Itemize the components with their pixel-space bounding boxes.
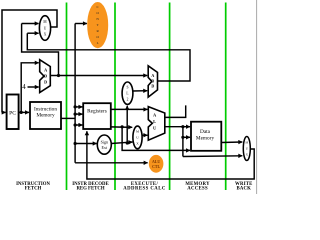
wire: riser to Registers write reg: [75, 124, 82, 126]
svg-text:Data: Data: [200, 129, 211, 135]
mux M2 (ALU src): [133, 126, 142, 149]
wire: PC+4 into mux M1 upper input: [22, 24, 59, 76]
junction node: riser write reg: [74, 123, 77, 126]
svg-text:FETCH: FETCH: [25, 187, 42, 192]
svg-text:PC: PC: [9, 111, 16, 117]
ALU: [148, 107, 165, 141]
ALU CTL oval: [149, 155, 163, 172]
data memory: [191, 122, 221, 151]
svg-text:Memory: Memory: [36, 112, 55, 118]
wire: ADD1 output (PC+4) to ADD2 upper input: [50, 75, 147, 77]
junction node: PC+4 branch: [57, 74, 60, 77]
adder ADD2 (branch target): [148, 66, 157, 97]
svg-text:Memory: Memory: [196, 136, 215, 142]
wire: sign extend up to shift left 2: [126, 106, 128, 143]
wire: ALU result to data memory address: [165, 126, 190, 128]
junction node: riser read reg 2: [74, 113, 77, 116]
svg-text:D: D: [44, 80, 47, 85]
stage divider green line 1: [66, 3, 68, 191]
shift left 2 oval: [122, 82, 133, 104]
svg-text:4: 4: [22, 83, 26, 91]
svg-text:Registers: Registers: [87, 108, 107, 114]
stage divider green line 3: [169, 3, 171, 191]
stage divider green line 4: [225, 3, 227, 191]
wire: read data 2 down to data memory write data: [122, 127, 190, 150]
wire: riser to Registers read reg 1: [75, 106, 82, 108]
junction node: sign ext / shift feed: [126, 141, 129, 144]
sign extend oval: [97, 135, 111, 154]
svg-text:U: U: [44, 26, 47, 30]
wire: ALU zero stub: [165, 105, 186, 117]
svg-text:L: L: [126, 92, 128, 96]
junction node: read data 2 branch: [121, 125, 124, 128]
svg-text:BACK: BACK: [236, 187, 251, 192]
svg-text:2: 2: [127, 98, 129, 102]
wire: shift left 2 output to ADD2 lower input: [133, 90, 147, 92]
wire: mux M2 output to ALU lower input: [142, 134, 147, 136]
wire: ALU result bypass to mux M3 lower input: [183, 155, 242, 158]
wire: write back return to Registers: [87, 131, 254, 179]
svg-text:REG FETCH: REG FETCH: [76, 187, 104, 192]
wire: arrow into PC: [2, 111, 6, 113]
wire: PC output to instruction memory: [19, 111, 29, 113]
junction node: riser read reg 1: [74, 105, 77, 108]
junction node: ALU result branch: [181, 125, 184, 128]
svg-text:L: L: [97, 41, 99, 45]
stage divider green line 2: [114, 3, 116, 191]
wire: branch into data memory second input: [183, 136, 190, 138]
svg-text:CTL: CTL: [152, 165, 160, 169]
junction node: ALU result to DM input 2: [181, 136, 184, 139]
wire: PC to ADD1 upper input: [21, 63, 39, 113]
stage labels: [16, 182, 252, 192]
svg-text:A: A: [44, 68, 47, 73]
svg-text:L: L: [153, 119, 156, 124]
svg-text:D: D: [44, 74, 47, 79]
junction node: riser sign extend: [74, 142, 77, 145]
wire: mux M1 output loop to PC: [2, 10, 57, 112]
wire: read data 2 to mux M2 upper input: [111, 126, 132, 128]
svg-text:ALU: ALU: [152, 160, 160, 164]
wire: riser to sign extend: [75, 143, 97, 145]
svg-text:Ext: Ext: [102, 145, 108, 150]
CONTROL oval: [88, 3, 108, 48]
svg-text:S: S: [127, 86, 129, 90]
mux M3 (write back): [243, 137, 250, 161]
wire: instruction memory output to instruction bus riser: [61, 117, 75, 119]
svg-text:X: X: [44, 33, 47, 37]
wire: ALU result branch down: [182, 127, 184, 157]
Registers: [83, 103, 111, 129]
wire: riser to ALU CTL: [75, 162, 148, 164]
svg-text:ACCESS: ACCESS: [187, 187, 208, 192]
wire: sign extend output to mux M2 lower input: [111, 142, 132, 144]
wire: branch target into mux M1 lower input: [27, 33, 190, 81]
junction node: PC output: [20, 111, 23, 114]
wire: riser to Registers read reg 2: [75, 113, 82, 115]
adder ADD1 (PC+4): [40, 60, 51, 93]
svg-text:ADDRESS CALC: ADDRESS CALC: [123, 187, 166, 192]
instruction memory: [30, 102, 61, 129]
wire: instruction bus riser: [74, 24, 76, 163]
wire: read data 1 to ALU upper input: [111, 108, 148, 110]
mux M1 (PC source): [39, 16, 50, 41]
wire: arrow into CONTROL: [75, 23, 87, 25]
PC register: [7, 95, 19, 130]
wire: data memory output to mux M3 upper input: [221, 141, 242, 144]
svg-text:M: M: [245, 141, 248, 145]
svg-text:M: M: [136, 130, 139, 134]
wire: constant 4 into ADD1 lower input: [28, 86, 39, 88]
right window border: [256, 0, 258, 194]
svg-text:D: D: [151, 84, 154, 89]
